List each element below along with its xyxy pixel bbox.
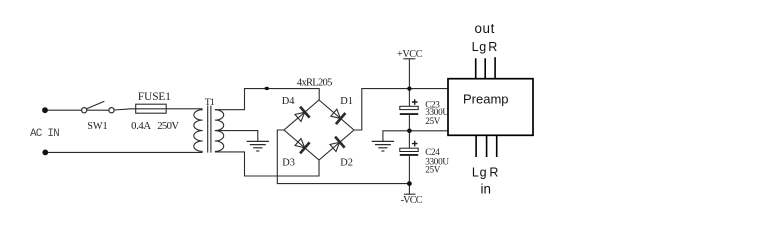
svg-text:AC IN: AC IN xyxy=(30,128,59,140)
svg-text:D3: D3 xyxy=(282,157,295,168)
svg-text:D2: D2 xyxy=(340,157,353,168)
svg-text:0.4A: 0.4A xyxy=(131,120,151,132)
svg-text:L: L xyxy=(472,165,479,179)
svg-text:out: out xyxy=(475,21,495,36)
svg-text:R: R xyxy=(488,40,497,54)
svg-text:g: g xyxy=(480,165,487,179)
svg-text:250V: 250V xyxy=(157,120,179,132)
svg-text:R: R xyxy=(489,165,498,179)
svg-text:D4: D4 xyxy=(282,96,296,107)
svg-text:-VCC: -VCC xyxy=(401,195,423,206)
svg-text:4xRL205: 4xRL205 xyxy=(297,77,332,88)
svg-text:FUSE1: FUSE1 xyxy=(138,91,171,103)
svg-text:in: in xyxy=(481,181,491,196)
svg-text:g: g xyxy=(479,40,486,54)
svg-text:L: L xyxy=(472,40,479,54)
svg-text:T1: T1 xyxy=(205,97,215,108)
svg-text:Preamp: Preamp xyxy=(463,92,509,107)
svg-text:+VCC: +VCC xyxy=(397,49,423,60)
svg-text:25V: 25V xyxy=(425,116,441,126)
svg-text:SW1: SW1 xyxy=(87,121,107,132)
svg-text:D1: D1 xyxy=(340,96,353,107)
svg-text:25V: 25V xyxy=(425,164,441,174)
